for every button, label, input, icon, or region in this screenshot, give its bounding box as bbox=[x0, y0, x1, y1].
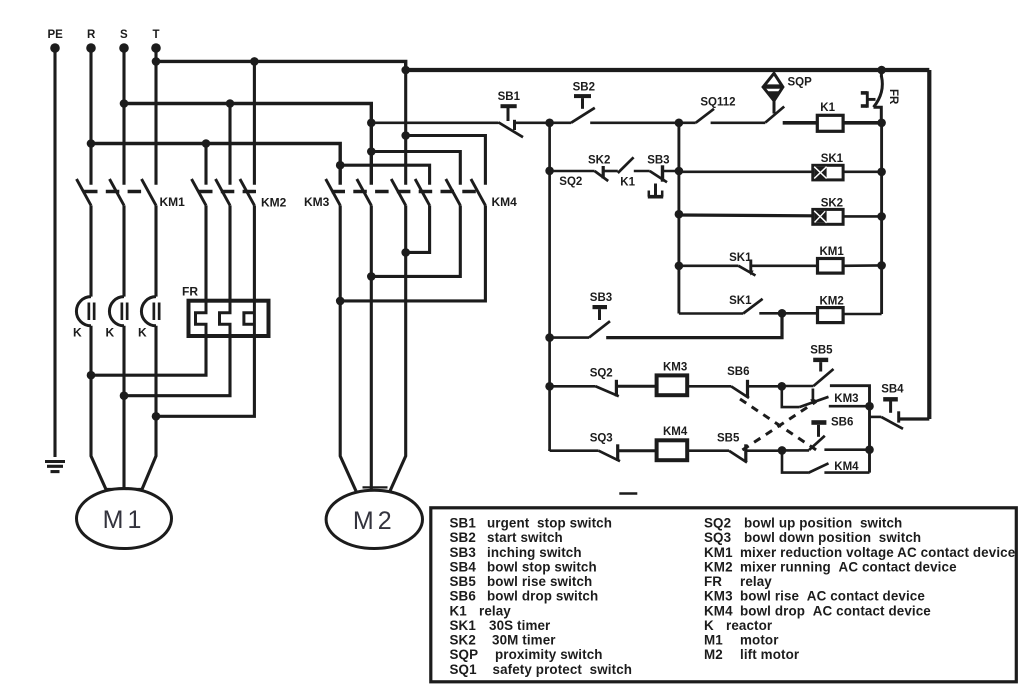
node E bbox=[778, 446, 787, 455]
svg-text:SQ2: SQ2 bbox=[559, 176, 582, 188]
node KM2 pole2 tap bbox=[226, 99, 235, 108]
node R terminal bbox=[86, 43, 96, 53]
symbol SB3 detent bbox=[654, 184, 657, 197]
wire KM2 interlock dashed bbox=[199, 190, 256, 193]
wire node C vertical bbox=[677, 123, 680, 314]
switch SB5 NC row7 bbox=[729, 451, 747, 463]
svg-text:M1: M1 bbox=[103, 506, 146, 534]
svg-text:lift motor: lift motor bbox=[740, 647, 800, 662]
node KM4 out2 join bbox=[367, 272, 376, 281]
node C bbox=[675, 119, 684, 128]
wire SB3 row to KM2 riser bbox=[606, 313, 782, 337]
switch SQ112 bbox=[696, 109, 714, 123]
wire reactor1 to M1 bbox=[91, 326, 107, 491]
wire row7 from left bus bbox=[550, 449, 599, 452]
wire SK1 coil to bus bbox=[843, 171, 882, 174]
node SB1 feed tap bbox=[367, 119, 376, 128]
reactor K phase S bbox=[109, 297, 124, 326]
wire row4 to SK1 contact bbox=[679, 264, 739, 267]
timer coil SK1 bbox=[813, 165, 843, 180]
wire KM1 pole2 out bbox=[122, 205, 125, 296]
wire SB6 to branch bus bbox=[824, 448, 869, 451]
node C2 bbox=[675, 167, 684, 176]
wire KM1 pole3 out bbox=[154, 205, 157, 296]
wire T vertical to KM1 pole3 bbox=[154, 48, 157, 185]
wire KM4 pole3 feed bbox=[406, 136, 486, 185]
timer coil SK2 bbox=[813, 209, 843, 224]
contactor coil KM2 bbox=[818, 308, 844, 323]
wire node E to KM4 contact bbox=[782, 450, 808, 472]
svg-text:SB1: SB1 bbox=[450, 516, 477, 531]
wire node A to SB2 bbox=[550, 122, 571, 125]
svg-text:SB4: SB4 bbox=[450, 560, 477, 575]
svg-text:PE: PE bbox=[48, 29, 64, 41]
wire stray mark bbox=[619, 492, 637, 495]
wire right return vertical bbox=[927, 70, 931, 419]
relay contact FR bbox=[880, 70, 883, 77]
svg-text:bowl down position switch: bowl down position switch bbox=[744, 530, 921, 545]
svg-text:SQ112: SQ112 bbox=[700, 97, 735, 109]
contactor blade KM3 pole2 bbox=[357, 179, 372, 205]
svg-text:M2: M2 bbox=[353, 507, 396, 535]
svg-text:KM2: KM2 bbox=[820, 296, 844, 308]
wire row2 to SK1 coil bbox=[679, 171, 813, 174]
svg-text:bowl stop switch: bowl stop switch bbox=[487, 560, 597, 575]
svg-text:S: S bbox=[120, 29, 128, 41]
wire KM3 pole2 to M2 bbox=[370, 205, 373, 490]
svg-text:mixer running AC contact devi: mixer running AC contact device bbox=[740, 560, 957, 575]
contactor blade KM4 pole2 bbox=[446, 179, 461, 205]
wire KM2 coil to bus bbox=[843, 313, 882, 316]
wire KM1 interlock dashed bbox=[84, 190, 149, 193]
svg-text:SQP: SQP bbox=[788, 76, 813, 88]
wire KM3 pole1 to M2 bbox=[340, 205, 356, 491]
svg-text:KM4: KM4 bbox=[492, 195, 518, 209]
contactor coil KM4 bbox=[657, 440, 688, 460]
svg-text:30M timer: 30M timer bbox=[492, 633, 556, 648]
wire K1 coil to right bus bbox=[843, 121, 882, 125]
svg-text:K: K bbox=[704, 618, 714, 633]
svg-text:KM1: KM1 bbox=[820, 246, 845, 258]
node right bus row4 bbox=[877, 261, 886, 270]
svg-text:SQP: SQP bbox=[450, 647, 479, 662]
svg-text:M1: M1 bbox=[704, 633, 723, 648]
svg-text:SB6: SB6 bbox=[450, 589, 476, 604]
wire PE vertical bbox=[53, 48, 56, 457]
wire node D to KM3 contact bbox=[782, 386, 800, 407]
wire FR2 to junction bbox=[124, 336, 230, 396]
node row4 left bbox=[675, 262, 684, 271]
motor M2 bbox=[326, 490, 422, 548]
node FR3 join bbox=[152, 412, 161, 421]
svg-text:SB3: SB3 bbox=[450, 545, 476, 560]
wire KM4 pole2 feed bbox=[371, 152, 460, 185]
wire right coil bus bbox=[880, 123, 883, 314]
node KM4 pole3 feed tap bbox=[401, 131, 410, 140]
node T bus tap bbox=[152, 57, 161, 66]
node S bus tap bbox=[120, 99, 129, 108]
svg-text:KM2: KM2 bbox=[261, 196, 287, 210]
svg-text:KM3: KM3 bbox=[663, 361, 687, 373]
node D bbox=[778, 382, 787, 391]
svg-text:SB6: SB6 bbox=[727, 366, 749, 378]
wire row6 to SQ2 bbox=[550, 385, 596, 388]
svg-text:K: K bbox=[138, 325, 147, 339]
wire R vertical to KM1 pole1 bbox=[89, 48, 92, 185]
svg-text:M2: M2 bbox=[704, 647, 723, 662]
wire row5 from node C vertical bbox=[679, 312, 743, 315]
svg-text:SK2: SK2 bbox=[450, 633, 476, 648]
contactor blade KM4 pole1 bbox=[415, 179, 430, 205]
svg-text:SQ2: SQ2 bbox=[704, 516, 731, 531]
wire T control drop bbox=[404, 70, 407, 185]
wire KM2 pole2 drop bbox=[228, 104, 231, 185]
contactor contact KM3 bbox=[799, 397, 828, 407]
svg-text:KM3: KM3 bbox=[304, 195, 330, 209]
wire SB1 to node A bbox=[515, 122, 550, 125]
svg-text:KM1: KM1 bbox=[160, 195, 186, 209]
wire left control bus bbox=[548, 123, 551, 451]
node KM4 pole2 feed tap bbox=[367, 147, 376, 156]
node right bus row1 bbox=[877, 119, 886, 128]
svg-text:bowl drop AC contact device: bowl drop AC contact device bbox=[740, 603, 931, 618]
wire reactor2 to M1 bbox=[122, 326, 125, 489]
svg-text:FR: FR bbox=[182, 284, 198, 298]
wire SB5 to right branch bus bbox=[830, 386, 870, 473]
node branch bus KM4 bbox=[865, 445, 874, 454]
wire SQ2 to KM3 coil bbox=[616, 385, 656, 388]
relay contact K1 bbox=[618, 157, 634, 173]
wire SB5 to node E bbox=[746, 449, 782, 452]
wire SQ2 to K1 contact bbox=[603, 170, 618, 173]
wire KM3 KM4 interlock dashed bbox=[332, 190, 479, 193]
wire KM4 pole1 feed bbox=[340, 165, 429, 185]
wire S vertical to KM1 pole2 bbox=[122, 48, 125, 185]
svg-text:urgent stop switch: urgent stop switch bbox=[487, 516, 612, 531]
contactor blade KM3 pole1 bbox=[326, 179, 341, 205]
contactor blade KM4 pole3 bbox=[471, 179, 486, 205]
node FR1 join bbox=[87, 371, 96, 380]
svg-text:SB4: SB4 bbox=[881, 384, 904, 396]
contactor blade KM2 pole1 bbox=[192, 179, 207, 205]
svg-text:SQ3: SQ3 bbox=[704, 530, 731, 545]
node control bus corner bbox=[401, 66, 410, 75]
node KM4 pole1 feed tap bbox=[336, 161, 345, 170]
svg-text:SK1: SK1 bbox=[821, 153, 844, 165]
node SB3 row left bbox=[545, 333, 554, 342]
svg-text:SB2: SB2 bbox=[450, 530, 476, 545]
svg-text:reactor: reactor bbox=[726, 618, 773, 633]
contactor blade KM2 pole2 bbox=[216, 179, 231, 205]
wire KM1 coil to bus bbox=[843, 264, 882, 267]
svg-text:SK1: SK1 bbox=[729, 295, 752, 307]
svg-text:SB6: SB6 bbox=[831, 416, 853, 428]
node KM2 row riser join bbox=[778, 309, 787, 318]
svg-text:SQ3: SQ3 bbox=[590, 432, 613, 444]
svg-text:SB5: SB5 bbox=[810, 344, 833, 356]
wire row3 to SK2 coil bbox=[679, 213, 813, 217]
wire SQ3 to KM4 coil bbox=[618, 449, 657, 452]
wire KM2 pole1 out bbox=[204, 205, 207, 301]
svg-text:K1: K1 bbox=[620, 176, 635, 188]
wire FR3 to junction bbox=[156, 336, 254, 416]
svg-text:bowl drop switch: bowl drop switch bbox=[487, 589, 598, 604]
svg-text:SB5: SB5 bbox=[717, 432, 740, 444]
node FR2 join bbox=[120, 391, 129, 400]
svg-text:relay: relay bbox=[479, 603, 511, 618]
svg-text:K: K bbox=[73, 325, 82, 339]
wire KM4 pole1 out crossover bbox=[406, 205, 430, 252]
switch SB4 bbox=[883, 397, 898, 401]
wire SQP to K1 coil bbox=[783, 121, 818, 125]
svg-text:KM4: KM4 bbox=[704, 603, 733, 618]
wire top control bus bbox=[406, 68, 930, 72]
wire K1 contact to SB3 bbox=[634, 170, 650, 173]
wire SB2 to node C bbox=[590, 122, 679, 125]
switch SB5 pushbutton bbox=[813, 358, 828, 362]
wire KM4 contact to branch bus bbox=[824, 471, 869, 474]
node T terminal bbox=[151, 43, 161, 53]
svg-text:KM3: KM3 bbox=[834, 393, 858, 405]
relay FR heater element2 bbox=[220, 301, 231, 336]
contactor coil KM1 bbox=[818, 259, 844, 274]
wire R bus bbox=[91, 144, 340, 185]
wire node B to SQ2 bbox=[550, 170, 595, 173]
node branch bus KM3 bbox=[865, 402, 874, 411]
node R bus tap bbox=[87, 139, 96, 148]
node B row2 left bbox=[545, 167, 554, 176]
svg-text:bowl up position switch: bowl up position switch bbox=[744, 516, 902, 531]
svg-text:T: T bbox=[153, 29, 160, 41]
node right bus row2 bbox=[877, 168, 886, 177]
wire KM2 pole1 drop bbox=[204, 144, 207, 185]
svg-text:start switch: start switch bbox=[487, 530, 563, 545]
svg-text:relay: relay bbox=[740, 574, 772, 589]
switch SQP proximity bbox=[763, 73, 783, 100]
switch SB1 bbox=[501, 104, 517, 108]
node row6 left bbox=[545, 382, 554, 391]
switch SQ2 row6 bbox=[596, 386, 619, 396]
node A bbox=[545, 119, 554, 128]
node PE terminal bbox=[50, 43, 60, 53]
switch SB2 bbox=[574, 94, 591, 98]
svg-text:SB1: SB1 bbox=[498, 91, 521, 103]
svg-text:motor: motor bbox=[740, 633, 779, 648]
contactor blade KM1 pole3 bbox=[142, 179, 157, 205]
wire FR1 to junction bbox=[91, 336, 206, 375]
relay FR heater box bbox=[189, 301, 269, 336]
svg-text:KM4: KM4 bbox=[663, 426, 688, 438]
svg-text:mixer reduction voltage AC con: mixer reduction voltage AC contact devic… bbox=[740, 545, 1015, 560]
switch SB6 NC row6 bbox=[731, 386, 749, 398]
svg-text:30S timer: 30S timer bbox=[489, 618, 551, 633]
wire KM4 pole2 out crossover bbox=[371, 205, 460, 276]
contactor contact KM4 bbox=[808, 463, 829, 473]
wire node D to SB5 bbox=[782, 385, 814, 388]
reactor K phase T bbox=[141, 297, 156, 326]
wire KM3 pole3 to M2 bbox=[390, 205, 406, 491]
wire node E to SB6 bbox=[782, 449, 809, 452]
ground bbox=[45, 462, 65, 472]
relay coil K1 bbox=[817, 115, 843, 131]
contactor blade KM2 pole3 bbox=[240, 179, 255, 205]
svg-text:KM1: KM1 bbox=[704, 545, 733, 560]
wire KM2 pole3 out bbox=[253, 205, 256, 301]
svg-text:proximity switch: proximity switch bbox=[495, 647, 603, 662]
switch SQ3 bbox=[599, 451, 620, 462]
contactor coil KM3 bbox=[657, 375, 688, 395]
node row3 left bbox=[675, 210, 684, 219]
contactor blade KM1 pole1 bbox=[77, 179, 92, 205]
svg-text:SB3: SB3 bbox=[647, 154, 669, 166]
legend box bbox=[431, 508, 1017, 682]
node KM2 pole1 tap bbox=[202, 139, 211, 148]
svg-text:bowl rise switch: bowl rise switch bbox=[487, 574, 592, 589]
wire SQ112 to SQP bbox=[711, 122, 766, 125]
wire SK2 coil to bus bbox=[843, 215, 882, 218]
switch SB6 pushbutton bbox=[811, 420, 826, 425]
svg-text:K1: K1 bbox=[820, 102, 835, 114]
switch SQ2 row2 bbox=[595, 171, 609, 181]
node S terminal bbox=[119, 43, 129, 53]
contactor blade KM3 pole3 bbox=[391, 179, 406, 205]
relay FR heater element3 bbox=[253, 301, 256, 336]
svg-text:bowl rise AC contact device: bowl rise AC contact device bbox=[740, 589, 925, 604]
wire KM3 contact to branch bus bbox=[829, 405, 870, 408]
timer contact SK1 row5 bbox=[743, 299, 762, 314]
wire SB1 feed bbox=[371, 122, 498, 125]
node top bus FR tap bbox=[877, 66, 886, 75]
contactor blade KM1 pole2 bbox=[110, 179, 125, 205]
svg-text:SQ2: SQ2 bbox=[590, 368, 613, 380]
wire SK1 row5 to KM2 coil bbox=[759, 312, 817, 315]
switch SB3 NC row2 bbox=[650, 171, 667, 182]
wire interlock X dashed 2 bbox=[742, 401, 816, 450]
wire SB4 to right return bbox=[899, 417, 930, 420]
reactor K phase R bbox=[76, 297, 91, 326]
node right bus row3 bbox=[877, 212, 886, 221]
svg-text:KM3: KM3 bbox=[704, 589, 733, 604]
wire KM2 pole3 drop bbox=[253, 61, 256, 184]
svg-text:K1: K1 bbox=[450, 603, 468, 618]
wire SK1 contact to KM1 coil bbox=[751, 264, 818, 267]
wire SB3 to node C2 bbox=[663, 170, 679, 173]
wire reactor3 to M1 bbox=[142, 326, 157, 491]
node KM4 out1 join bbox=[336, 297, 345, 306]
node KM2 pole3 tap bbox=[250, 57, 259, 66]
wire to SB3 pushbutton bbox=[550, 336, 589, 339]
wire KM4 coil to SB5 bbox=[687, 449, 729, 452]
svg-text:SQ1: SQ1 bbox=[450, 662, 478, 677]
svg-text:SB5: SB5 bbox=[450, 574, 477, 589]
svg-text:SB2: SB2 bbox=[573, 82, 595, 94]
svg-text:SK1: SK1 bbox=[450, 618, 477, 633]
svg-text:SK2: SK2 bbox=[588, 154, 610, 166]
wire node C to SQ112 bbox=[679, 122, 696, 125]
wire KM3 coil to SB6 bbox=[687, 385, 731, 388]
relay FR heater element1 bbox=[196, 301, 207, 336]
wire T bus to control feed corner bbox=[156, 61, 406, 70]
svg-text:FR: FR bbox=[887, 89, 899, 105]
svg-text:K: K bbox=[106, 325, 115, 339]
wire KM1 pole1 out bbox=[89, 205, 92, 296]
svg-text:SB3: SB3 bbox=[590, 292, 612, 304]
node KM4 out3 join bbox=[401, 248, 410, 257]
svg-text:KM4: KM4 bbox=[834, 461, 859, 473]
timer contact SK1 row4 bbox=[739, 266, 756, 276]
wire KM4 pole3 out crossover bbox=[340, 205, 485, 301]
svg-text:R: R bbox=[87, 29, 96, 41]
svg-text:SK2: SK2 bbox=[821, 197, 843, 209]
wire SB6 to node D bbox=[748, 385, 782, 388]
switch SB3 pushbutton bbox=[593, 305, 608, 309]
svg-text:inching switch: inching switch bbox=[487, 545, 582, 560]
wire S bus bbox=[124, 104, 371, 185]
svg-text:SK1: SK1 bbox=[729, 252, 752, 264]
svg-text:FR: FR bbox=[704, 574, 722, 589]
motor M1 bbox=[77, 489, 172, 549]
svg-text:safety protect switch: safety protect switch bbox=[493, 662, 633, 677]
wire interlock X dashed 1 bbox=[740, 399, 816, 450]
svg-text:KM2: KM2 bbox=[704, 560, 733, 575]
wire KM2 pole2 out bbox=[228, 205, 231, 301]
